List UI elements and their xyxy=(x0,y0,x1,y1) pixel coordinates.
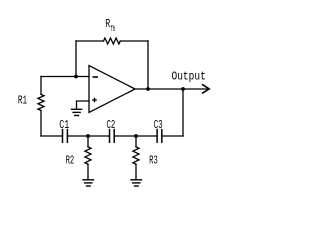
wire R1 bottom lead xyxy=(40,111,42,137)
op-amp U1 xyxy=(89,66,135,113)
wire noninverting input xyxy=(77,101,90,109)
arrow output xyxy=(202,84,209,93)
svg-text:C1: C1 xyxy=(59,118,69,132)
svg-text:C3: C3 xyxy=(154,118,163,132)
wire right riser xyxy=(182,89,184,136)
node dot C2/R3 xyxy=(134,134,138,138)
svg-text:Output: Output xyxy=(172,70,206,84)
wire C3 to right riser xyxy=(163,135,184,137)
wire feedback right vertical xyxy=(147,41,149,89)
resistor R1 xyxy=(38,94,44,110)
wire bottom to C1 xyxy=(41,135,62,137)
wire R2 top lead xyxy=(87,136,89,147)
wire R1 top lead xyxy=(40,77,42,95)
wire R2 bottom lead xyxy=(87,164,89,179)
node dot inverting input xyxy=(74,75,78,79)
wire inverting input xyxy=(41,76,89,78)
wire C2 to C3 xyxy=(115,135,156,137)
resistor Rfb xyxy=(104,38,121,44)
node dot C1/R2 xyxy=(86,134,90,138)
capacitor C3 xyxy=(157,130,162,143)
svg-text:R3: R3 xyxy=(149,153,158,167)
node dot feedback/output xyxy=(146,87,150,91)
ground G3 (below R3) xyxy=(130,180,142,186)
node dot output branch xyxy=(181,87,185,91)
ground G1 (noninverting input) xyxy=(71,109,82,115)
wire output xyxy=(135,88,209,90)
wire feedback top left segment xyxy=(76,40,104,42)
wire feedback left vertical xyxy=(75,41,77,77)
svg-text:R1: R1 xyxy=(18,94,27,108)
wire R3 bottom lead xyxy=(135,164,137,179)
wire C1 to C2 xyxy=(68,135,109,137)
op-amp minus sign xyxy=(93,76,99,78)
wire feedback top right segment xyxy=(120,40,148,42)
ground G2 (below R2) xyxy=(82,180,94,186)
wire R3 top lead xyxy=(135,136,137,147)
capacitor C2 xyxy=(110,130,115,143)
op-amp plus sign xyxy=(92,98,97,103)
resistor R3 xyxy=(133,147,139,164)
svg-text:C2: C2 xyxy=(107,118,116,132)
capacitor C1 xyxy=(63,130,68,143)
resistor R2 xyxy=(85,147,91,164)
svg-text:R2: R2 xyxy=(66,153,75,167)
svg-text:fb: fb xyxy=(110,26,115,34)
